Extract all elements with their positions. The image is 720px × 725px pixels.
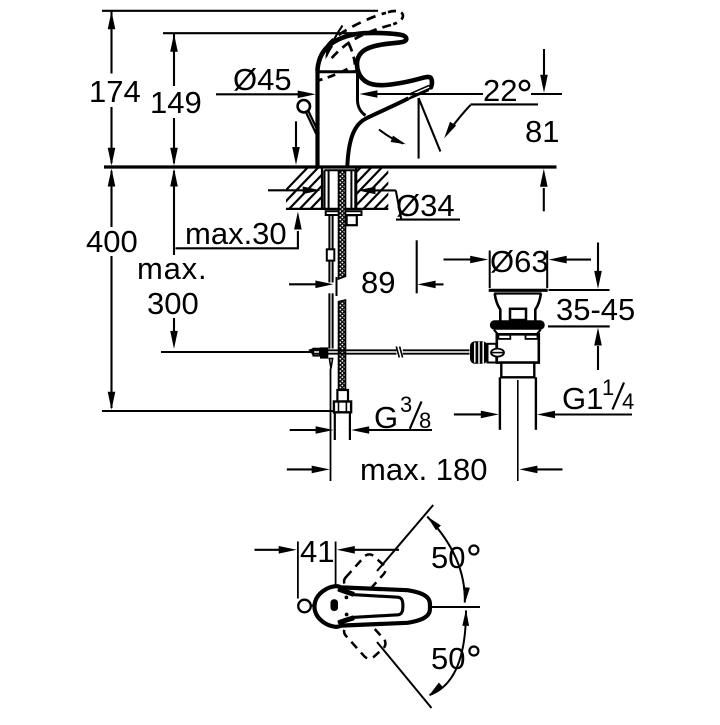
dim max30 arrow up below counter: [294, 212, 302, 249]
drain plug chamfer line: [494, 292, 542, 294]
drain collar: [501, 363, 534, 378]
dim 89 arrow left: [418, 281, 444, 289]
pull rod upper: [306, 111, 319, 134]
dim 149 arrow up: [170, 34, 178, 52]
svg-text:400: 400: [86, 224, 138, 259]
pull rod below counter: [329, 215, 332, 249]
top view handle dashed position upper: [341, 552, 388, 600]
svg-text:4: 4: [622, 389, 634, 414]
svg-text:3: 3: [400, 392, 412, 417]
svg-text:89: 89: [361, 265, 395, 300]
dim max180 arrow left: [519, 466, 562, 474]
svg-text:8: 8: [419, 408, 431, 433]
pull rod tip: [329, 359, 332, 369]
svg-text:G1: G1: [562, 381, 603, 416]
drain body: [497, 334, 539, 362]
counter bottom line: [286, 208, 388, 210]
drain screw: [491, 349, 504, 357]
dim 22deg leader line: [471, 103, 539, 105]
svg-text:35-45: 35-45: [556, 292, 635, 327]
dim d45 arrow left onto spout: [359, 90, 483, 98]
dim 400 arrow up below deck: [108, 169, 116, 187]
top view cartridge mark: [331, 599, 339, 611]
top view upper arc arrow: [427, 517, 470, 604]
drain knob block: [488, 344, 497, 363]
faucet lever raised dashed back: [320, 13, 387, 60]
svg-text:41: 41: [300, 534, 334, 569]
dim label 149: [150, 85, 202, 120]
dim 3545 arrow up: [594, 328, 602, 371]
dim 174 arrow down: [108, 148, 116, 166]
dim G38 arrow right: [290, 426, 334, 434]
svg-text:Ø63: Ø63: [490, 244, 549, 279]
dim 81 arrow up lower: [540, 169, 548, 212]
faucet body right edge: [357, 73, 365, 116]
dim label 3545: [556, 292, 635, 327]
dim label 22deg: [483, 73, 529, 108]
dim label max180: [360, 452, 488, 487]
dim label 300: [147, 286, 199, 321]
dim 81 arrow down upper: [540, 49, 548, 93]
faucet lever raised dashed bottom arc: [318, 69, 348, 81]
faucet lever and spout outline: [318, 33, 432, 87]
drain centre line: [517, 380, 519, 481]
faucet body cap line: [316, 70, 356, 73]
dim 3545 lower reference line: [548, 325, 610, 327]
dim d45 arrow right: [298, 91, 316, 99]
pop-up rod clamp tip: [308, 348, 313, 356]
drain neck taper: [495, 294, 541, 321]
dim d34 leader diagonal: [396, 190, 402, 219]
svg-text:Ø45: Ø45: [233, 62, 292, 97]
top view pull rod knob: [298, 600, 315, 613]
shank inner walls: [329, 170, 352, 209]
dim 41 arrow right: [255, 546, 297, 554]
washer under counter: [326, 211, 362, 215]
counter hole right edge: [355, 167, 357, 209]
lever lift motion arc: [325, 26, 342, 60]
faucet lever raised dashed front edge: [349, 44, 355, 72]
dim max300 arrow down: [170, 331, 178, 349]
dim label 50deg upper: [431, 540, 478, 575]
G38 nut: [334, 402, 351, 413]
extension line top (lever raised level): [102, 10, 378, 12]
dim G114 arrow left: [537, 411, 632, 419]
dim 89 arrow right: [289, 281, 333, 289]
faucet aerator bar: [409, 85, 430, 98]
drain overflow notch: [510, 309, 526, 320]
dim 22deg arc arrow: [444, 105, 470, 138]
dim max300 arrow up below deck: [170, 169, 178, 187]
top view lower arc arrow: [429, 610, 469, 696]
drain knob stripes: [475, 342, 483, 364]
dim 149 vertical line upper segment: [173, 33, 175, 86]
svg-text:22: 22: [483, 73, 517, 108]
top view detail dots: [345, 596, 349, 617]
top view dim 41 extension right: [335, 542, 337, 585]
dim label 400: [86, 224, 138, 259]
top view dim 41 extension left: [297, 542, 299, 599]
dim label d45: [233, 62, 292, 97]
drain tail pipe: [500, 377, 536, 430]
top view 50deg upper line: [377, 505, 433, 571]
pull rod lower: [329, 293, 332, 348]
dim d34 arrow right: [268, 187, 321, 195]
faucet aerator bottom line: [409, 90, 429, 99]
braided hose lower segment: [339, 300, 346, 390]
dim 149 vertical line lower segment: [173, 118, 175, 163]
dim label d34: [396, 188, 455, 223]
dim label d63: [490, 244, 549, 279]
dim max180 extension line faucet: [330, 369, 332, 482]
dim d63 arrow right: [444, 256, 489, 264]
pop-up rod clamp: [313, 347, 328, 358]
braided hose upper segment: [339, 171, 346, 279]
drain body slots: [498, 335, 537, 339]
dim 22deg angled construction line: [419, 98, 441, 152]
dim max30 leader line: [176, 247, 299, 249]
svg-text:81: 81: [525, 114, 559, 149]
dim d63 extension lines: [490, 251, 548, 289]
svg-text:1: 1: [602, 375, 614, 400]
faucet body left edge: [315, 70, 319, 167]
dim max180 arrow right: [287, 466, 330, 474]
svg-text:174: 174: [89, 74, 141, 109]
pull rod knob: [298, 100, 310, 112]
faucet lever raised dashed tip: [388, 11, 403, 24]
dim label 89: [361, 265, 395, 300]
top view handle inner line: [338, 589, 403, 623]
svg-text:50: 50: [431, 540, 465, 575]
dim label 81: [525, 114, 559, 149]
dim 22deg vertical construction line: [418, 98, 420, 159]
dim label G114: [562, 375, 634, 416]
extension line (lever rest level): [163, 32, 356, 34]
top view handle outline: [315, 586, 430, 627]
dim 174 arrow up: [108, 11, 116, 29]
counter hole left edge: [321, 167, 323, 209]
dim 400 vertical line lower segment: [110, 256, 112, 408]
pull rod coupling: [327, 249, 335, 260]
dim d34 arrow left: [358, 187, 396, 195]
top view 50deg lower line: [377, 642, 432, 708]
svg-text:50: 50: [431, 641, 465, 676]
dim d45 leader line: [216, 93, 299, 95]
dim d63 arrow left: [549, 256, 591, 264]
svg-text:300: 300: [147, 286, 199, 321]
G38 tail pipe: [335, 412, 350, 440]
dim 174 vertical line upper segment: [110, 11, 112, 74]
dim label max.: [137, 251, 207, 286]
mounting nut: [347, 215, 357, 225]
reference line pipe end level: [102, 410, 333, 412]
dim G114 arrow right: [454, 411, 499, 419]
dim 149 arrow down: [170, 148, 178, 166]
top view handle dashed position lower: [341, 613, 388, 661]
svg-text:Ø34: Ø34: [396, 188, 455, 223]
faucet lever raised dashed underside: [331, 25, 391, 59]
svg-text:149: 149: [150, 85, 202, 120]
drain seal ring: [490, 320, 545, 329]
svg-text:max.30: max.30: [185, 216, 287, 251]
horizontal pop-up rod: [314, 350, 470, 353]
dim 3545 arrow down: [594, 243, 602, 289]
dim label 50deg lower: [431, 641, 478, 676]
hose end fitting: [337, 390, 348, 402]
dim 22deg line right of label: [531, 93, 562, 95]
shank outer walls: [324, 170, 355, 209]
svg-text:G: G: [374, 400, 398, 435]
dim 89 extension line: [416, 240, 418, 293]
dim 400 vertical line upper segment: [110, 171, 112, 227]
dim 41 arrow left: [337, 546, 399, 554]
drain body taper: [494, 330, 541, 335]
dim max30 arrow down above counter: [292, 121, 300, 165]
pull rod middle: [329, 261, 332, 283]
dim label 41: [300, 534, 334, 569]
svg-text:max. 180: max. 180: [360, 452, 488, 487]
counter top line: [104, 165, 557, 168]
dim label max.30: [185, 216, 287, 251]
dim label 174: [89, 74, 141, 109]
pop-up rod break marks: [396, 347, 402, 358]
spout swing arc arrow: [379, 130, 406, 145]
drain plug top line: [489, 289, 548, 292]
dim d34 leader line: [396, 219, 460, 221]
top view horizontal centre line: [431, 606, 481, 608]
dim label G38: [374, 392, 431, 435]
drain actuating knob: [470, 341, 488, 364]
reference line hose lever level: [161, 351, 313, 353]
counter section hatching: [265, 164, 438, 212]
dim 400 arrow down: [108, 392, 116, 410]
shank top line: [324, 169, 355, 171]
faucet spout underside curve: [347, 98, 408, 166]
dim max300 vertical upper segment: [173, 171, 175, 255]
dim max300 vertical lower segment: [173, 318, 175, 331]
dim 174 vertical line lower segment: [110, 107, 112, 163]
dim 89 centre tick: [336, 277, 338, 296]
svg-text:max.: max.: [137, 251, 207, 286]
dim G38 arrow left: [351, 426, 432, 434]
dim 3545 upper reference line: [549, 289, 610, 291]
